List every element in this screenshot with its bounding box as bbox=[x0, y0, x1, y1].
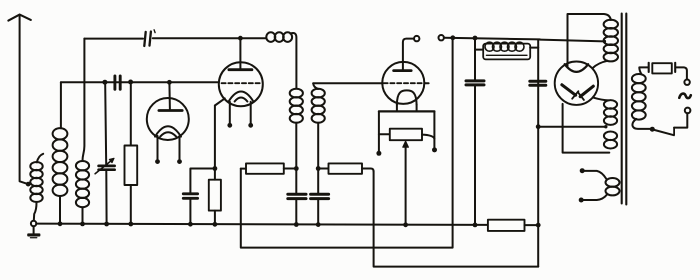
node bbox=[128, 80, 133, 85]
node U2 filament pin bbox=[248, 123, 253, 128]
node switch pivot bbox=[650, 127, 655, 132]
capacitor C7 bbox=[466, 40, 484, 225]
triode U4 output bbox=[555, 61, 598, 104]
wire U4 anode lead bbox=[568, 14, 611, 67]
resistor R2 cathode bias bbox=[209, 170, 221, 224]
node bbox=[294, 166, 299, 171]
antenna bbox=[8, 15, 30, 184]
node bbox=[104, 222, 109, 227]
node bbox=[603, 40, 606, 43]
switch S1 bbox=[652, 113, 687, 135]
node bbox=[473, 223, 478, 228]
node terminal bbox=[579, 198, 584, 203]
node U2 filament pin bbox=[227, 123, 232, 128]
triode U2 bbox=[215, 38, 263, 123]
inductor L1 antenna coil bbox=[30, 154, 43, 221]
transformer T1 secondary bbox=[312, 83, 325, 193]
node terminal bbox=[580, 168, 585, 173]
capacitor C8 bbox=[530, 81, 546, 85]
potentiometer R5 frame bbox=[379, 111, 435, 152]
transformer T2 filament winding upper bbox=[604, 100, 617, 125]
wire bbox=[190, 169, 215, 194]
wire bbox=[525, 224, 539, 226]
node bbox=[213, 222, 218, 227]
node filament tap bbox=[536, 124, 541, 129]
node U2 anode junction bbox=[238, 36, 243, 41]
capacitor C10 tick bbox=[674, 63, 676, 72]
transformer T1 primary bbox=[290, 89, 303, 193]
node mains terminal lower bbox=[685, 108, 691, 114]
wire minus rail bbox=[374, 172, 539, 267]
AC symbol bbox=[679, 94, 691, 99]
wire B plus drop bbox=[537, 40, 539, 267]
variable capacitor C1 bbox=[95, 85, 115, 225]
node antenna tap bbox=[26, 182, 31, 187]
node bbox=[80, 222, 85, 227]
node bbox=[450, 35, 455, 40]
capacitor C2 grid series bbox=[115, 76, 120, 89]
triode U3 bbox=[382, 39, 428, 112]
resistor R1 grid leak bbox=[125, 85, 138, 225]
node bbox=[188, 222, 193, 227]
wire top anode line bbox=[84, 38, 143, 40]
node bbox=[536, 223, 541, 228]
node grid cap plug bbox=[439, 35, 444, 40]
node bbox=[432, 147, 437, 152]
node U3 grid cap bbox=[414, 36, 419, 41]
node bbox=[102, 80, 107, 85]
transformer T2 core bbox=[622, 14, 627, 205]
resistor R7 bbox=[488, 220, 525, 231]
wire common bus bbox=[36, 224, 488, 225]
node bbox=[294, 222, 299, 227]
wire T1 secondary to U3 grid bbox=[313, 82, 384, 84]
resistor R4 bbox=[318, 163, 373, 173]
wire U2 cathode drop bbox=[214, 106, 216, 169]
wire to mains terminal bbox=[676, 67, 687, 79]
node bbox=[604, 125, 607, 128]
inductor L2 grid coil bbox=[53, 82, 68, 224]
ground terminal bbox=[31, 221, 36, 226]
inductor L4 anode coupling coil bbox=[242, 32, 297, 88]
wire filament centre tap bbox=[538, 126, 606, 128]
node bbox=[403, 222, 408, 227]
transformer T2 filament winding lower bbox=[604, 132, 617, 149]
capacitor C3 bbox=[144, 30, 155, 46]
wire U4 filament left bbox=[563, 104, 610, 153]
wire anode supply top bbox=[444, 38, 540, 40]
capacitor C5 bbox=[288, 194, 306, 224]
triode U1 bbox=[147, 82, 189, 159]
node U1 filament pin bbox=[155, 159, 160, 164]
capacitor C6 bbox=[311, 194, 329, 224]
node bbox=[316, 222, 321, 227]
inductor L3 reaction coil bbox=[76, 39, 89, 224]
node bbox=[58, 221, 63, 226]
node bbox=[213, 166, 218, 171]
resistor R6 fuse bbox=[652, 63, 672, 73]
transformer T2 primary winding bbox=[593, 20, 618, 68]
wire grid bus bbox=[61, 81, 220, 83]
wire bbox=[153, 37, 239, 39]
node mains terminal upper bbox=[684, 80, 689, 85]
wire B plus to T2 bbox=[540, 40, 605, 42]
node bbox=[128, 222, 133, 227]
node bbox=[376, 151, 381, 156]
resistor R3 bbox=[241, 163, 296, 173]
capacitor C4 cathode bypass bbox=[183, 194, 197, 224]
capacitor C9 tick bbox=[648, 63, 650, 72]
wire grid return rail bbox=[241, 40, 453, 248]
node U1 filament pin bbox=[177, 159, 182, 164]
ground bbox=[27, 226, 40, 238]
node bbox=[316, 166, 321, 171]
wire R5 wiper bbox=[403, 141, 409, 225]
node bbox=[473, 36, 478, 41]
wire U4 filament right bbox=[593, 98, 608, 101]
choke RFC1 bbox=[475, 42, 538, 59]
node U1 anode junction bbox=[167, 80, 172, 85]
transformer T2 filament winding 2 bbox=[582, 171, 620, 200]
transformer T2 mains winding bbox=[632, 67, 651, 128]
